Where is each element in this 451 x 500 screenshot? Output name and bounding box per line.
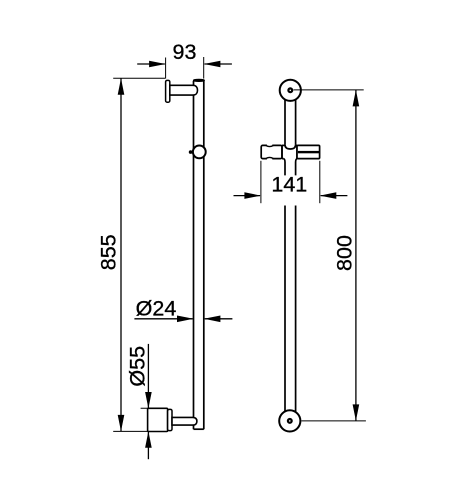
svg-text:Ø55: Ø55 [126,346,150,387]
svg-text:800: 800 [332,235,356,271]
svg-text:141: 141 [271,173,307,197]
svg-text:855: 855 [97,234,121,270]
svg-text:93: 93 [173,40,197,64]
svg-text:Ø24: Ø24 [136,297,177,321]
